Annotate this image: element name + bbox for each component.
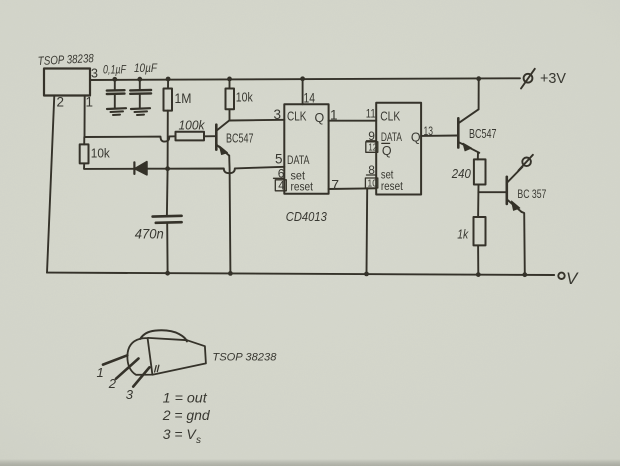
- svg-text:12: 12: [368, 142, 377, 154]
- resistor 1M: [167, 79, 169, 89]
- svg-text:10k: 10k: [236, 90, 253, 105]
- svg-text:5: 5: [275, 151, 283, 166]
- +3V rail wire: [90, 78, 520, 80]
- svg-text:0,1µF: 0,1µF: [103, 65, 127, 77]
- svg-text:3: 3: [274, 107, 282, 122]
- svg-text:Q: Q: [315, 111, 325, 125]
- capacitor 0.1uF: [114, 79, 116, 90]
- pin 14 wire: [302, 79, 304, 105]
- wire Q3 emitter to 0V rail: [522, 212, 525, 275]
- wire 100k to base: [204, 135, 216, 137]
- wire node B down to 1k: [477, 192, 479, 217]
- wire emitter down to 0V rail: [229, 156, 230, 274]
- svg-text:s: s: [196, 435, 201, 446]
- svg-text:2 = gnd: 2 = gnd: [162, 407, 211, 423]
- svg-text:1: 1: [86, 95, 94, 110]
- package lead 3: [133, 367, 149, 386]
- wire Q2 emitter to 240: [477, 153, 479, 160]
- svg-text:BC547: BC547: [469, 127, 497, 141]
- svg-text:1 = out: 1 = out: [163, 390, 208, 406]
- svg-text:Q: Q: [382, 144, 392, 158]
- wire Q2 collector to +3V rail: [478, 79, 480, 110]
- svg-text:1M: 1M: [175, 91, 192, 106]
- wire pin1 down from TSOP: [84, 96, 86, 138]
- wire 1M bottom to node A: [167, 111, 169, 169]
- wire collector up to 10k: [229, 109, 231, 120]
- transistor Q3 BC357: [505, 177, 508, 204]
- transistor Q2 BC547: [457, 118, 460, 147]
- svg-text:DATA: DATA: [287, 153, 310, 167]
- svg-text:TSOP 38238: TSOP 38238: [212, 352, 277, 364]
- flip-flop U1B box: [376, 103, 421, 195]
- svg-text:reset: reset: [291, 182, 314, 194]
- svg-text:4: 4: [278, 181, 285, 193]
- svg-text:10k: 10k: [91, 146, 110, 161]
- resistor 1k: [474, 217, 486, 245]
- svg-text:V: V: [566, 269, 579, 288]
- pin 10 boxed label: [365, 178, 377, 188]
- svg-text:240: 240: [451, 166, 472, 181]
- svg-text:1: 1: [97, 365, 104, 380]
- svg-text:100k: 100k: [179, 119, 206, 133]
- svg-text:2: 2: [108, 376, 117, 391]
- diode D1: [133, 162, 135, 174]
- wire collector to CLK pin 3: [230, 119, 285, 122]
- svg-text:BC 357: BC 357: [517, 187, 546, 201]
- wire Q1A to CLK U1B: [329, 120, 377, 122]
- wire reset node down to 0V: [366, 188, 369, 273]
- svg-text:13: 13: [424, 124, 434, 138]
- capacitor 10uF: [139, 79, 141, 90]
- ground (0.1uF): [107, 107, 126, 110]
- svg-text:DATA: DATA: [381, 132, 402, 144]
- svg-text:3 = V: 3 = V: [163, 426, 198, 442]
- svg-text:CD4013: CD4013: [286, 209, 328, 224]
- wire 240 to node B: [477, 185, 479, 193]
- svg-text:1: 1: [330, 108, 338, 123]
- package lead 1: [103, 355, 127, 364]
- svg-text:10: 10: [367, 178, 377, 190]
- wire TSOP pin2 down to 0V: [47, 96, 54, 273]
- resistor 100k: [176, 132, 205, 141]
- junction dots on rails: [112, 77, 117, 82]
- svg-text:reset: reset: [381, 181, 404, 193]
- wire node B to Q3 base: [478, 191, 506, 193]
- TSOP package sketch body: [148, 338, 187, 340]
- wire pin7 to pin10: [329, 187, 377, 190]
- svg-text:CLK: CLK: [380, 109, 401, 123]
- 0V terminal: [558, 273, 564, 279]
- svg-text:7: 7: [331, 177, 339, 193]
- resistor 240: [474, 159, 486, 184]
- svg-text:+3V: +3V: [540, 71, 566, 87]
- svg-text:BC547: BC547: [226, 131, 254, 145]
- svg-text:TSOP 38238: TSOP 38238: [37, 51, 94, 68]
- wire 10k bottom to diode row: [84, 163, 134, 169]
- package lead 2: [116, 359, 139, 379]
- node A junction dot: [165, 166, 170, 171]
- pin 4 boxed label: [275, 180, 286, 191]
- resistor 10k collector load: [229, 79, 231, 89]
- TSOP 38238 receiver block: [44, 69, 90, 96]
- output terminal (slashed circle): [522, 158, 531, 167]
- svg-text:14: 14: [304, 90, 316, 105]
- wire node A to DATA pin with hop over emitter line: [168, 167, 285, 173]
- wire Q U1B to Q2 base, pin 13: [421, 135, 458, 137]
- package marks: [155, 365, 159, 372]
- svg-text:11: 11: [366, 107, 376, 121]
- wire 1k to 0V rail: [477, 245, 479, 274]
- package dome: [127, 338, 152, 375]
- svg-text:10µF: 10µF: [134, 63, 158, 75]
- svg-text:2: 2: [57, 95, 65, 110]
- flip-flop U1A box: [284, 104, 328, 193]
- transistor Q1 BC547: [215, 125, 218, 150]
- svg-text:470n: 470n: [135, 227, 164, 242]
- pin 12 boxed label: [366, 142, 378, 153]
- resistor 10k pulldown: [80, 144, 89, 163]
- +3V terminal: [524, 74, 533, 83]
- wire pin1 node to 100k with hop over 1M line: [85, 136, 176, 141]
- svg-text:CLK: CLK: [287, 109, 307, 123]
- 0V rail wire: [47, 273, 554, 275]
- svg-text:3: 3: [91, 67, 98, 81]
- svg-text:Q: Q: [411, 130, 421, 144]
- capacitor 470n: [166, 169, 169, 216]
- svg-text:set: set: [381, 169, 394, 181]
- wire pin1 node down to 10k: [83, 137, 85, 144]
- ground (10uF): [131, 107, 150, 110]
- junction dot rail: [476, 76, 481, 81]
- svg-text:3: 3: [126, 387, 134, 402]
- svg-text:1k: 1k: [457, 227, 469, 242]
